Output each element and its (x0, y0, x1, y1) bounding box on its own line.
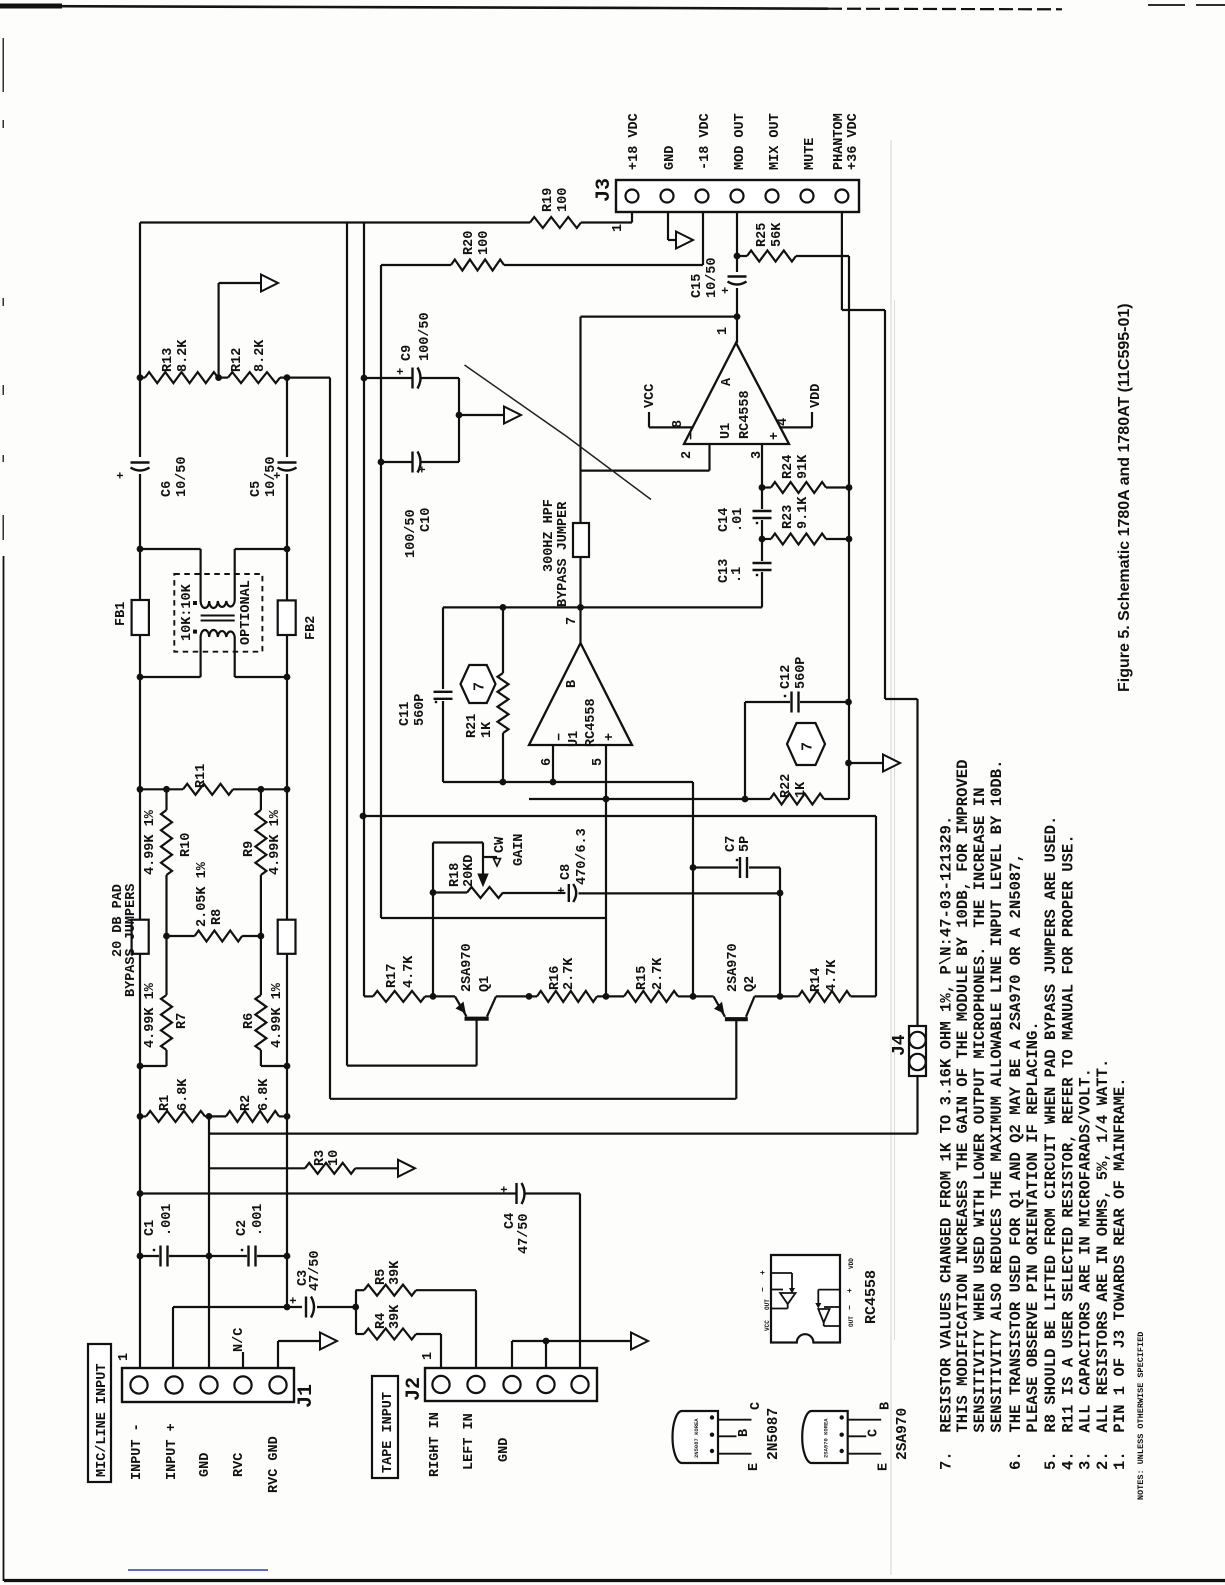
svg-text:1: 1 (421, 1352, 436, 1360)
svg-text:R2: R2 (239, 1095, 254, 1111)
svg-text:U1: U1 (719, 423, 734, 439)
svg-text:C11: C11 (398, 702, 413, 726)
svg-text:4: 4 (776, 418, 791, 426)
svg-text:2.7K: 2.7K (651, 957, 666, 990)
svg-text:3. ALL CAPACITORS ARE IN MICR: 3. ALL CAPACITORS ARE IN MICROFARADS/VOL… (1077, 1068, 1095, 1470)
svg-text:91K: 91K (796, 454, 811, 479)
svg-text:470/6.3: 470/6.3 (575, 828, 590, 885)
svg-text:−: − (846, 1305, 855, 1310)
svg-text:+: + (271, 472, 285, 479)
svg-text:GND: GND (198, 1453, 213, 1477)
svg-text:47/50: 47/50 (517, 1213, 532, 1254)
svg-text:R23: R23 (781, 505, 796, 529)
svg-text:J2: J2 (403, 1377, 426, 1401)
svg-text:R18: R18 (448, 863, 463, 887)
svg-text:R21: R21 (465, 714, 480, 738)
svg-text:−: − (685, 432, 700, 440)
svg-text:VDD: VDD (809, 384, 824, 408)
svg-text:PLEASE OBSERVE PIN ORIENTATION: PLEASE OBSERVE PIN ORIENTATION IF REPLAC… (1024, 1021, 1042, 1470)
svg-text:R16: R16 (548, 966, 563, 990)
svg-text:.01: .01 (731, 508, 746, 532)
svg-text:MUTE: MUTE (803, 138, 818, 170)
svg-text:1. PIN 1 OF J3 TOWARDS REAR O: 1. PIN 1 OF J3 TOWARDS REAR OF MAINFRAME… (1111, 1077, 1129, 1470)
svg-text:−: − (759, 1287, 768, 1292)
svg-text:C6: C6 (160, 481, 175, 497)
svg-text:5. R8 SHOULD BE LIFTED FROM C: 5. R8 SHOULD BE LIFTED FROM CIRCUIT WHEN… (1042, 816, 1060, 1470)
svg-text:R13: R13 (161, 348, 176, 372)
svg-text:GND: GND (497, 1438, 512, 1462)
svg-text:2SA970 KOREA: 2SA970 KOREA (823, 1418, 830, 1458)
svg-text:7: 7 (472, 682, 489, 691)
svg-text:2SA970: 2SA970 (726, 943, 741, 992)
svg-text:R19: R19 (541, 188, 556, 212)
svg-text:+: + (114, 472, 128, 479)
svg-text:J4: J4 (890, 1034, 910, 1056)
svg-text:560P: 560P (794, 657, 809, 689)
svg-text:100/50: 100/50 (404, 509, 419, 558)
svg-text:7: 7 (565, 617, 580, 625)
svg-text:RC4558: RC4558 (738, 390, 753, 439)
svg-text:C8: C8 (559, 864, 574, 880)
svg-text:6.8K: 6.8K (257, 1078, 272, 1111)
svg-text:GND: GND (663, 146, 678, 170)
svg-text:RVC GND: RVC GND (267, 1436, 282, 1493)
svg-text:+: + (287, 1297, 301, 1304)
svg-text:4.99K 1%: 4.99K 1% (270, 982, 285, 1048)
svg-text:BYPASS JUMPER: BYPASS JUMPER (556, 501, 571, 607)
svg-text:MIC/LINE INPUT: MIC/LINE INPUT (95, 1364, 110, 1477)
svg-text:THIS MODIFICATION INCREASES TH: THIS MODIFICATION INCREASES THE GAIN OF … (954, 760, 972, 1470)
svg-text:.001: .001 (251, 1204, 266, 1236)
svg-text:4.99K 1%: 4.99K 1% (268, 809, 283, 875)
svg-text:R20: R20 (462, 231, 477, 255)
svg-text:+: + (603, 733, 618, 741)
svg-text:+: + (719, 287, 733, 294)
svg-text:R8: R8 (210, 909, 225, 925)
svg-text:R15: R15 (635, 966, 650, 990)
svg-text:1K: 1K (794, 781, 809, 798)
svg-text:10: 10 (327, 1150, 342, 1166)
svg-text:E: E (747, 1463, 762, 1471)
svg-text:MOD OUT: MOD OUT (733, 113, 748, 170)
svg-text:LEFT IN: LEFT IN (462, 1413, 477, 1470)
svg-text:R7: R7 (175, 1013, 190, 1029)
svg-text:TAPE INPUT: TAPE INPUT (381, 1392, 396, 1473)
svg-text:39K: 39K (388, 1260, 403, 1285)
svg-text:BYPASS JUMPERS: BYPASS JUMPERS (124, 884, 139, 997)
svg-text:RVC: RVC (232, 1453, 247, 1477)
svg-text:C12: C12 (779, 665, 794, 689)
svg-text:47/50: 47/50 (308, 1250, 323, 1291)
svg-text:56K: 56K (770, 222, 785, 247)
svg-text:560P: 560P (413, 694, 428, 726)
svg-text:1: 1 (611, 224, 626, 232)
svg-text:A: A (720, 377, 735, 386)
svg-text:R3: R3 (313, 1150, 328, 1166)
svg-text:R5: R5 (374, 1269, 389, 1285)
svg-text:J3: J3 (593, 178, 616, 202)
svg-text:+36 VDC: +36 VDC (846, 113, 861, 170)
svg-text:C15: C15 (690, 274, 705, 298)
svg-text:1: 1 (716, 327, 731, 335)
svg-text:C4: C4 (503, 1213, 518, 1229)
svg-text:4.7K: 4.7K (402, 955, 417, 988)
svg-text:8: 8 (671, 420, 686, 428)
svg-text:R6: R6 (242, 1013, 257, 1029)
svg-text:+: + (846, 1288, 855, 1293)
svg-text:RIGHT IN: RIGHT IN (428, 1412, 443, 1477)
svg-text:R1: R1 (158, 1095, 173, 1111)
svg-text:9.1K: 9.1K (796, 496, 811, 529)
svg-text:NOTES: UNLESS OTHERWISE SPECIF: NOTES: UNLESS OTHERWISE SPECIFIED (1136, 1332, 1146, 1500)
svg-text:6: 6 (540, 758, 555, 766)
svg-text:6. THE TRANSISTOR USED FOR Q1: 6. THE TRANSISTOR USED FOR Q1 AND Q2 MAY… (1007, 853, 1025, 1470)
svg-text:U1: U1 (567, 731, 582, 747)
svg-text:2SA970: 2SA970 (460, 943, 475, 992)
svg-text:6.8K: 6.8K (176, 1078, 191, 1111)
svg-text:.1: .1 (730, 567, 745, 583)
svg-text:2N5087: 2N5087 (766, 1408, 782, 1460)
svg-text:R14: R14 (809, 968, 824, 992)
svg-text:-18 VDC: -18 VDC (698, 113, 713, 170)
svg-text:−: − (553, 733, 568, 741)
svg-text:R10: R10 (179, 833, 194, 857)
svg-text:4.99K 1%: 4.99K 1% (143, 809, 158, 875)
svg-text:CW: CW (493, 836, 508, 853)
svg-text:8.2K: 8.2K (176, 339, 191, 372)
svg-text:100/50: 100/50 (418, 312, 433, 361)
svg-text:OPTIONAL: OPTIONAL (239, 580, 254, 645)
svg-text:VCC: VCC (764, 1320, 771, 1331)
svg-text:B: B (737, 1429, 752, 1437)
svg-text:J1: J1 (295, 1384, 318, 1408)
svg-text:Q1: Q1 (478, 976, 493, 992)
svg-text:RC4558: RC4558 (863, 1270, 880, 1324)
svg-text:+: + (394, 368, 408, 375)
svg-text:2SA970: 2SA970 (895, 1408, 911, 1460)
svg-text:R25: R25 (755, 223, 770, 247)
svg-text:4. R11 IS A USER SELECTED RES: 4. R11 IS A USER SELECTED RESISTOR, REFE… (1060, 834, 1078, 1470)
svg-text:1: 1 (117, 1353, 132, 1361)
svg-text:R11: R11 (194, 764, 209, 788)
svg-text:R24: R24 (781, 455, 796, 479)
svg-text:E: E (877, 1463, 892, 1471)
svg-text:GAIN: GAIN (512, 834, 527, 866)
svg-text:7. RESISTOR VALUES CHANGED FR: 7. RESISTOR VALUES CHANGED FROM 1K TO 3.… (938, 816, 956, 1470)
svg-text:+: + (498, 1186, 512, 1193)
svg-text:VDD: VDD (848, 1258, 855, 1269)
svg-text:4.99K 1%: 4.99K 1% (143, 982, 158, 1048)
svg-text:20KD: 20KD (462, 855, 477, 887)
svg-text:FB1: FB1 (114, 602, 129, 626)
svg-text:300HZ HPF: 300HZ HPF (542, 499, 557, 572)
svg-text:INPUT +: INPUT + (165, 1423, 180, 1480)
svg-text:OUT: OUT (848, 1316, 855, 1327)
svg-text:R9: R9 (242, 841, 257, 857)
svg-text:+: + (416, 466, 430, 473)
svg-text:PHANTOM: PHANTOM (832, 113, 847, 170)
svg-text:VCC: VCC (643, 384, 658, 408)
svg-text:3: 3 (750, 451, 765, 459)
svg-text:C10: C10 (419, 508, 434, 532)
svg-text:7: 7 (800, 742, 817, 751)
svg-text:MIX OUT: MIX OUT (768, 113, 783, 170)
svg-text:100: 100 (556, 188, 571, 212)
svg-text:SENSITIVITY WHEN USED WITH LOW: SENSITIVITY WHEN USED WITH LOWER OUTPUT … (971, 788, 989, 1470)
svg-text:5: 5 (591, 758, 606, 766)
svg-text:+18 VDC: +18 VDC (627, 113, 642, 170)
svg-text:C1: C1 (143, 1220, 158, 1236)
svg-text:Q2: Q2 (743, 976, 758, 992)
svg-text:2: 2 (680, 451, 695, 459)
svg-text:C: C (749, 1402, 764, 1410)
svg-text:C14: C14 (717, 508, 732, 532)
svg-text:1K: 1K (480, 721, 495, 738)
svg-text:C2: C2 (235, 1220, 250, 1236)
svg-text:10/50: 10/50 (705, 257, 720, 298)
svg-text:10K:10K: 10K:10K (180, 583, 195, 641)
svg-text:INPUT -: INPUT - (130, 1423, 145, 1480)
svg-text:+: + (555, 887, 569, 894)
svg-text:FB2: FB2 (304, 616, 319, 640)
svg-text:2.05K 1%: 2.05K 1% (195, 861, 210, 927)
svg-text:2.7K: 2.7K (562, 957, 577, 990)
svg-text:B: B (565, 680, 580, 688)
svg-text:.001: .001 (160, 1204, 175, 1236)
svg-text:Figure 5. Schematic 1780A and: Figure 5. Schematic 1780A and 1780AT (11… (1116, 303, 1133, 692)
svg-text:C9: C9 (400, 345, 415, 361)
svg-text:2. ALL RESISTORS ARE IN OHMS,: 2. ALL RESISTORS ARE IN OHMS, 5%, 1/4 WA… (1094, 1059, 1112, 1470)
svg-text:2N5087 KOREA: 2N5087 KOREA (693, 1418, 700, 1458)
svg-text:10/50: 10/50 (175, 456, 190, 497)
svg-text:R17: R17 (385, 964, 400, 988)
svg-text:C7: C7 (724, 836, 739, 852)
svg-text:8.2K: 8.2K (253, 339, 268, 372)
svg-text:C: C (867, 1429, 882, 1437)
svg-text:N/C: N/C (232, 1328, 247, 1352)
svg-text:R22: R22 (779, 774, 794, 798)
svg-text:+: + (759, 1270, 768, 1275)
svg-text:R12: R12 (230, 348, 245, 372)
svg-text:100: 100 (477, 231, 492, 255)
svg-text:OUT: OUT (764, 1299, 771, 1310)
svg-text:5P: 5P (738, 836, 753, 852)
svg-text:+: + (768, 432, 783, 440)
svg-text:R4: R4 (374, 1313, 389, 1329)
svg-text:C5: C5 (249, 481, 264, 497)
svg-text:B: B (879, 1402, 894, 1410)
svg-text:4.7K: 4.7K (825, 959, 840, 992)
svg-text:SENSITIVITY ALSO REDUCES THE M: SENSITIVITY ALSO REDUCES THE MAXIMUM ALL… (988, 760, 1006, 1470)
svg-text:39K: 39K (388, 1304, 403, 1329)
svg-text:RC4558: RC4558 (584, 698, 599, 747)
